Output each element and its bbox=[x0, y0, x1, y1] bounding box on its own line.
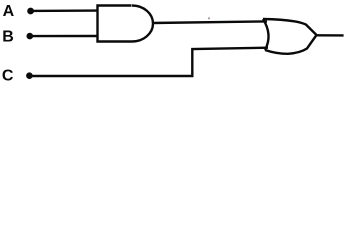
svg-text:C: C bbox=[2, 68, 14, 85]
svg-text:A: A bbox=[3, 3, 15, 20]
svg-text:B: B bbox=[2, 28, 14, 45]
